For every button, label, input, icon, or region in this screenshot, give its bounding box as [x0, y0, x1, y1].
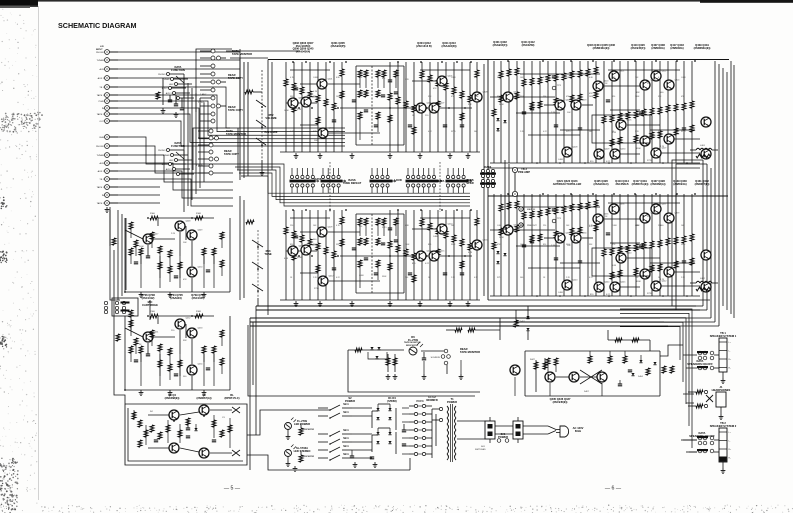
svg-text:SPEAKER SYSTEM 2: SPEAKER SYSTEM 2 — [710, 424, 737, 428]
svg-text:TAPE COPY: TAPE COPY — [224, 152, 239, 156]
svg-text:6.8K: 6.8K — [474, 77, 479, 79]
svg-text:R715: R715 — [497, 277, 502, 279]
svg-text:0.22: 0.22 — [474, 277, 478, 279]
svg-text:(2SC945(E)): (2SC945(E)) — [553, 400, 568, 404]
wire left verticals — [110, 210, 133, 341]
wire divider x488 — [484, 60, 488, 300]
svg-text:AUX: AUX — [100, 162, 105, 165]
preamp channel 2 circuit — [280, 209, 482, 306]
svg-text:L-: L- — [729, 441, 731, 443]
wire bus left drop — [250, 306, 256, 388]
svg-text:DATA: DATA — [485, 165, 492, 169]
psu interconnect — [293, 408, 436, 471]
tape monitor indicator circuit — [248, 325, 480, 396]
svg-text:(2SA904LO): (2SA904LO) — [594, 182, 609, 186]
headphone jack — [688, 385, 731, 419]
svg-text:1K: 1K — [412, 115, 415, 117]
svg-text:60Hz: 60Hz — [575, 429, 582, 433]
svg-text:R715: R715 — [566, 131, 571, 133]
title text — [58, 21, 137, 30]
svg-text:R&B: R&B — [100, 137, 105, 139]
svg-text:33K: 33K — [636, 92, 640, 94]
svg-text:R-: R- — [729, 368, 731, 370]
svg-text:PHONO: PHONO — [158, 150, 166, 152]
phono eq block B — [124, 311, 230, 395]
svg-text:560: 560 — [183, 376, 187, 378]
svg-text:Q443: Q443 — [573, 280, 579, 282]
svg-text:C408: C408 — [313, 77, 318, 79]
svg-text:(2SD468(A)): (2SD468(A)) — [651, 182, 666, 186]
svg-text:2.2K: 2.2K — [451, 277, 456, 279]
wire bus from jacks 1 — [110, 52, 240, 78]
switch S1 function A — [158, 65, 194, 100]
svg-text:TAPE 1: TAPE 1 — [97, 186, 105, 189]
svg-text:TAPE COPY: TAPE COPY — [228, 108, 243, 112]
scan artifact: top-left black bar — [0, 0, 38, 8]
svg-text:4.7K: 4.7K — [313, 91, 318, 93]
svg-text:560: 560 — [336, 131, 339, 133]
wire vertical group left — [184, 78, 204, 212]
svg-text:820: 820 — [412, 263, 416, 265]
svg-text:(2SD667(A)): (2SD667(A)) — [197, 396, 212, 400]
svg-text:R+: R+ — [729, 449, 732, 451]
component value labels — [139, 71, 680, 379]
svg-text:10K: 10K — [567, 112, 571, 114]
svg-text:R108: R108 — [196, 311, 202, 313]
svg-text:Q409: Q409 — [328, 227, 334, 229]
svg-text:(2SC1345): (2SC1345) — [192, 296, 205, 300]
svg-text:S01: S01 — [481, 446, 486, 448]
svg-text:OUT: OUT — [99, 121, 104, 123]
switch S2 function B — [158, 141, 194, 176]
svg-text:TAPE 2: TAPE 2 — [97, 113, 105, 116]
potentiometer tone cluster — [240, 196, 272, 306]
switch bank row — [290, 162, 472, 212]
svg-text:330K: 330K — [681, 244, 686, 246]
svg-text:8200MFD: 8200MFD — [426, 398, 438, 402]
svg-text:TP1: TP1 — [557, 85, 562, 87]
svg-text:AUX: AUX — [169, 83, 174, 86]
wire phono connect — [110, 207, 150, 404]
svg-text:Q444: Q444 — [605, 282, 611, 284]
tape monitor jacks 1 — [198, 49, 252, 123]
svg-text:820: 820 — [658, 244, 661, 246]
svg-text:Q441: Q441 — [651, 269, 657, 271]
svg-text:DATA: DATA — [438, 179, 445, 183]
svg-text:330K: 330K — [636, 148, 641, 150]
svg-text:TUNER: TUNER — [163, 79, 170, 81]
svg-text:220: 220 — [497, 77, 500, 79]
svg-text:AUX: AUX — [100, 68, 105, 71]
svg-text:DATA: DATA — [315, 177, 322, 181]
svg-text:(40-904504): (40-904504) — [296, 49, 311, 53]
svg-text:C408: C408 — [612, 225, 617, 227]
svg-text:C408: C408 — [451, 77, 456, 79]
svg-text:S2-1: S2-1 — [343, 444, 349, 448]
svg-text:10K: 10K — [566, 225, 570, 227]
svg-text:TUNER: TUNER — [96, 60, 104, 62]
svg-text:10K: 10K — [382, 243, 386, 245]
svg-text:330K: 330K — [297, 257, 302, 259]
svg-text:2.2K: 2.2K — [171, 233, 176, 235]
switch bank labels — [315, 177, 474, 185]
svg-text:VOLUME: VOLUME — [265, 116, 277, 120]
svg-text:33K: 33K — [658, 96, 662, 98]
svg-text:1K: 1K — [497, 131, 500, 133]
svg-text:L401: L401 — [700, 145, 706, 147]
svg-text:R715: R715 — [612, 277, 617, 279]
svg-text:L+: L+ — [729, 342, 732, 344]
svg-text:(2SC1312): (2SC1312) — [142, 296, 155, 300]
svg-text:560: 560 — [520, 277, 523, 279]
svg-text:TONE DEFEAT: TONE DEFEAT — [343, 181, 362, 185]
svg-text:33K: 33K — [428, 96, 432, 98]
svg-text:1K: 1K — [605, 216, 608, 218]
svg-text:TUNER: TUNER — [96, 155, 104, 157]
svg-text:820: 820 — [497, 96, 500, 98]
svg-text:10K: 10K — [520, 77, 524, 79]
svg-text:R715: R715 — [681, 131, 686, 133]
svg-text:Q449: Q449 — [198, 230, 204, 232]
svg-text:SPEAKERS ON-OFF: SPEAKERS ON-OFF — [689, 434, 715, 438]
svg-text:L402: L402 — [700, 278, 706, 280]
svg-text:330K: 330K — [382, 276, 387, 278]
preamp-main junction jacks — [480, 160, 537, 230]
svg-text:FUNCTION: FUNCTION — [171, 68, 185, 72]
label row psu — [345, 395, 438, 403]
svg-text:Q428: Q428 — [573, 147, 579, 149]
svg-text:0.22: 0.22 — [336, 277, 340, 279]
svg-text:10K: 10K — [681, 225, 685, 227]
svg-text:SPEAKERS ON-OFF: SPEAKERS ON-OFF — [687, 362, 713, 366]
svg-text:1 TB A: 1 TB A — [196, 164, 203, 167]
svg-text:Q445: Q445 — [621, 282, 627, 284]
svg-text:AUX: AUX — [169, 159, 174, 162]
svg-text:10K: 10K — [183, 242, 187, 244]
svg-text:INDICATOR: INDICATOR — [302, 455, 314, 458]
bridge rectifier diodes — [372, 404, 406, 454]
svg-text:220: 220 — [428, 225, 431, 227]
capacitor cluster C1 — [156, 78, 184, 117]
svg-text:10K: 10K — [313, 225, 317, 227]
svg-text:1K: 1K — [359, 245, 362, 247]
svg-text:Q431: Q431 — [675, 134, 681, 136]
svg-text:TAPE 2: TAPE 2 — [97, 202, 105, 205]
label row amp mid — [553, 179, 710, 186]
scan artifact: page edge — [38, 6, 40, 500]
svg-text:IN: IN — [102, 108, 105, 110]
svg-text:Q452: Q452 — [186, 318, 192, 320]
svg-text:S2-1: S2-1 — [343, 410, 349, 414]
svg-text:220: 220 — [171, 330, 175, 332]
svg-text:HEADPHONES: HEADPHONES — [712, 388, 731, 392]
svg-text:0.22: 0.22 — [658, 131, 662, 133]
svg-text:Q434: Q434 — [582, 233, 588, 235]
wire staircase bus A — [110, 87, 345, 146]
svg-text:C408: C408 — [558, 159, 564, 161]
svg-text:SCHEMATIC DIAGRAM: SCHEMATIC DIAGRAM — [58, 21, 137, 30]
label row preamp top — [293, 41, 457, 53]
svg-text:2.2K: 2.2K — [681, 277, 686, 279]
svg-text:(2SC1313 B): (2SC1313 B) — [416, 44, 432, 48]
svg-text:R106: R106 — [150, 311, 156, 313]
svg-text:6.8K: 6.8K — [612, 265, 617, 267]
inductor L402 — [690, 278, 718, 291]
svg-text:TAPE MONITOR: TAPE MONITOR — [404, 341, 421, 344]
preamp channel 1 circuit — [280, 61, 482, 158]
svg-text:1K: 1K — [290, 277, 293, 279]
svg-text:PRE AMP: PRE AMP — [518, 170, 530, 174]
tape monitor jacks 2 — [196, 129, 246, 175]
svg-text:4.7K: 4.7K — [336, 225, 341, 227]
svg-text:C408: C408 — [497, 225, 502, 227]
svg-text:(2SA494(D)): (2SA494(D)) — [442, 44, 457, 48]
svg-text:0.22: 0.22 — [589, 277, 593, 279]
svg-text:TONE: TONE — [264, 252, 272, 256]
svg-text:AUX 2: AUX 2 — [98, 170, 105, 173]
svg-text:TAPE 1: TAPE 1 — [97, 94, 105, 97]
wire long bus nest — [250, 306, 700, 326]
svg-text:AUX 2: AUX 2 — [98, 77, 105, 80]
svg-text:D404: D404 — [638, 376, 644, 378]
wire tape section box 1 — [196, 49, 240, 112]
svg-text:47K: 47K — [681, 96, 685, 98]
svg-text:Q439: Q439 — [675, 213, 681, 215]
label row phono B — [141, 293, 205, 300]
relay protector block — [125, 393, 247, 465]
svg-text:220: 220 — [290, 225, 293, 227]
wire rail ch2 top — [488, 195, 728, 197]
svg-text:2.2K: 2.2K — [566, 277, 571, 279]
phono eq block A — [124, 213, 230, 297]
svg-text:BALANCE: BALANCE — [265, 130, 278, 134]
svg-text:100K: 100K — [499, 237, 504, 239]
svg-text:560: 560 — [474, 131, 477, 133]
wire rail ch2 bottom — [488, 299, 710, 301]
svg-text:POWER: POWER — [447, 400, 457, 404]
svg-text:(S5566): (S5566) — [387, 399, 397, 403]
svg-text:(2SB507A(E)): (2SB507A(E)) — [632, 182, 649, 186]
svg-text:(2SA904(F)): (2SA904(F)) — [493, 43, 508, 47]
svg-text:0.22: 0.22 — [543, 131, 547, 133]
svg-text:6.8K: 6.8K — [336, 77, 341, 79]
svg-text:INDICATOR: INDICATOR — [302, 428, 314, 431]
svg-text:R447: R447 — [530, 359, 536, 361]
fuse row — [409, 399, 432, 456]
protection circuit — [446, 318, 674, 404]
svg-text:47K: 47K — [433, 88, 437, 90]
wire bus step right — [660, 160, 719, 326]
svg-text:330K: 330K — [635, 96, 640, 98]
svg-text:ANTIFRACTO/POLLER: ANTIFRACTO/POLLER — [553, 182, 582, 186]
wire tape out to preamp — [226, 51, 300, 58]
svg-text:PHONO: PHONO — [96, 52, 104, 54]
svg-text:D407: D407 — [584, 391, 590, 393]
svg-text:AUX 2: AUX 2 — [162, 87, 169, 90]
LED power indicator 1 — [285, 418, 315, 440]
wire right vertical bus low — [620, 309, 697, 452]
svg-text:— 5 —: — 5 — — [224, 486, 241, 492]
svg-text:(2SB594A): (2SB594A) — [673, 182, 686, 186]
svg-text:0.22: 0.22 — [425, 263, 430, 265]
svg-text:330K: 330K — [451, 244, 456, 246]
svg-text:100K: 100K — [499, 104, 504, 106]
wire relay to psu — [247, 388, 410, 470]
svg-text:L-: L- — [729, 351, 731, 353]
svg-text:R4: R4 — [150, 411, 153, 413]
svg-text:560: 560 — [313, 239, 317, 241]
svg-text:MAIN IN: MAIN IN — [527, 208, 536, 211]
svg-text:2.2K: 2.2K — [313, 277, 318, 279]
svg-text:4.7K: 4.7K — [660, 279, 665, 281]
page number 6 — [605, 486, 622, 492]
svg-text:(2SD667(E)): (2SD667(E)) — [695, 182, 710, 186]
svg-text:10K: 10K — [451, 225, 455, 227]
svg-text:2SC458LB: 2SC458LB — [615, 182, 628, 186]
svg-text:INPUT: INPUT — [96, 49, 103, 51]
svg-text:2 REC: 2 REC — [200, 94, 207, 96]
svg-text:47K: 47K — [612, 244, 616, 246]
svg-text:4.7K: 4.7K — [468, 252, 473, 254]
svg-text:10K: 10K — [314, 140, 318, 142]
page number 5 — [224, 486, 241, 492]
svg-text:47K: 47K — [382, 78, 386, 80]
svg-text:Q401: Q401 — [328, 79, 334, 81]
svg-text:(2SA904): (2SA904) — [170, 296, 181, 300]
svg-text:4.7K: 4.7K — [474, 225, 479, 227]
svg-text:Q440: Q440 — [627, 253, 633, 255]
svg-text:R-: R- — [729, 458, 731, 460]
svg-text:(2SB646A(E)): (2SB646A(E)) — [593, 46, 610, 50]
svg-text:PRE OUT: PRE OUT — [527, 225, 537, 227]
svg-text:(2SD666A(E)): (2SD666A(E)) — [694, 46, 711, 50]
svg-text:— 6 —: — 6 — — [605, 486, 622, 492]
svg-text:Q454: Q454 — [198, 364, 204, 366]
svg-text:SOURCE: SOURCE — [431, 357, 441, 359]
svg-text:100K: 100K — [474, 96, 479, 98]
svg-text:2.2K: 2.2K — [551, 112, 556, 114]
svg-text:(2SD468(E)): (2SD468(E)) — [165, 396, 180, 400]
svg-text:33K: 33K — [589, 244, 593, 246]
svg-text:2.2K: 2.2K — [635, 131, 640, 133]
svg-text:100K: 100K — [284, 110, 289, 112]
diode pair D401 — [514, 306, 530, 340]
svg-text:1K: 1K — [605, 83, 608, 85]
svg-text:Q430: Q430 — [621, 149, 627, 151]
svg-text:PLAY: PLAY — [99, 100, 105, 103]
wire staircase bus B — [233, 164, 470, 206]
svg-text:C408: C408 — [558, 292, 564, 294]
inductor L401 — [690, 145, 718, 158]
svg-text:L+: L+ — [729, 432, 732, 434]
svg-text:LED POWER: LED POWER — [294, 422, 310, 426]
wire top rail — [268, 60, 729, 316]
svg-text:2.2K: 2.2K — [551, 245, 556, 247]
svg-text:100K: 100K — [405, 244, 410, 246]
svg-text:33K: 33K — [468, 104, 472, 106]
wire rail mid1 — [488, 167, 700, 169]
svg-text:0.22: 0.22 — [428, 131, 432, 133]
svg-text:Q425: Q425 — [627, 120, 633, 122]
svg-text:100K: 100K — [520, 244, 525, 246]
svg-text:PHONO: PHONO — [96, 146, 104, 148]
svg-text:C408: C408 — [566, 77, 571, 79]
svg-text:C3: C3 — [222, 417, 225, 419]
svg-text:6.8K: 6.8K — [405, 225, 410, 227]
label row power amp top b — [493, 40, 536, 47]
svg-text:(2SB648A): (2SB648A) — [670, 46, 683, 50]
svg-text:220: 220 — [543, 225, 546, 227]
svg-text:100K: 100K — [589, 96, 594, 98]
svg-text:TAPE MONITOR: TAPE MONITOR — [232, 52, 252, 56]
svg-text:AUX 3: AUX 3 — [166, 168, 173, 171]
svg-text:(2SC945(F)): (2SC945(F)) — [631, 46, 646, 50]
svg-text:Q436: Q436 — [620, 204, 626, 206]
svg-text:47K: 47K — [589, 93, 593, 95]
svg-text:47K: 47K — [497, 244, 501, 246]
svg-text:Q412: Q412 — [329, 276, 335, 278]
svg-text:L/R: L/R — [100, 46, 104, 48]
svg-text:S2-1: S2-1 — [343, 436, 349, 440]
svg-text:PHONO: PHONO — [158, 74, 166, 76]
svg-text:Q453: Q453 — [198, 328, 204, 330]
svg-text:220: 220 — [612, 77, 615, 79]
svg-text:TAPE MONITOR: TAPE MONITOR — [460, 350, 480, 354]
svg-text:820: 820 — [543, 244, 546, 246]
svg-text:FUNCTION: FUNCTION — [171, 144, 185, 148]
svg-text:C408: C408 — [681, 77, 686, 79]
svg-text:SWITCHED: SWITCHED — [475, 449, 486, 451]
svg-text:INDICATOR: INDICATOR — [406, 344, 418, 347]
svg-text:R715: R715 — [314, 288, 320, 290]
speaker terminal 2 — [681, 421, 737, 473]
svg-text:2.2K: 2.2K — [297, 109, 302, 111]
svg-text:TAPE COPY: TAPE COPY — [228, 76, 243, 80]
svg-text:330K: 330K — [636, 281, 641, 283]
svg-text:TB 2: TB 2 — [99, 179, 104, 181]
svg-text:Q448: Q448 — [186, 221, 192, 223]
svg-text:Q419: Q419 — [582, 100, 588, 102]
LED power indicator 2 — [285, 445, 315, 467]
label row power amp top — [587, 43, 711, 50]
wire bus from jacks 2 — [110, 137, 233, 206]
svg-text:Q421: Q421 — [620, 71, 626, 73]
svg-text:820: 820 — [359, 226, 362, 228]
svg-text:POWER: POWER — [498, 435, 508, 439]
svg-text:820: 820 — [428, 244, 431, 246]
svg-text:S2-1: S2-1 — [343, 452, 349, 456]
input jack column 2 — [96, 135, 118, 213]
svg-text:Q408: Q408 — [483, 92, 489, 94]
svg-text:220: 220 — [658, 225, 661, 227]
svg-text:S2-1: S2-1 — [343, 428, 349, 432]
svg-text:1K: 1K — [543, 277, 546, 279]
svg-text:R715: R715 — [382, 227, 387, 229]
svg-text:560: 560 — [405, 277, 408, 279]
svg-text:Q429: Q429 — [605, 149, 611, 151]
svg-text:(DPDT-PLC): (DPDT-PLC) — [225, 396, 240, 400]
svg-text:47K: 47K — [451, 96, 455, 98]
svg-text:AUX 3: AUX 3 — [166, 92, 173, 95]
svg-text:Q426: Q426 — [651, 136, 657, 138]
svg-text:Q437: Q437 — [662, 204, 668, 206]
svg-text:Q450: Q450 — [198, 267, 204, 269]
svg-text:Q407: Q407 — [440, 103, 446, 105]
svg-text:C408: C408 — [359, 275, 364, 277]
AC outlets and mains plug — [457, 417, 584, 451]
potentiometer VR volume/balance — [240, 58, 278, 180]
svg-text:4.7K: 4.7K — [660, 146, 665, 148]
